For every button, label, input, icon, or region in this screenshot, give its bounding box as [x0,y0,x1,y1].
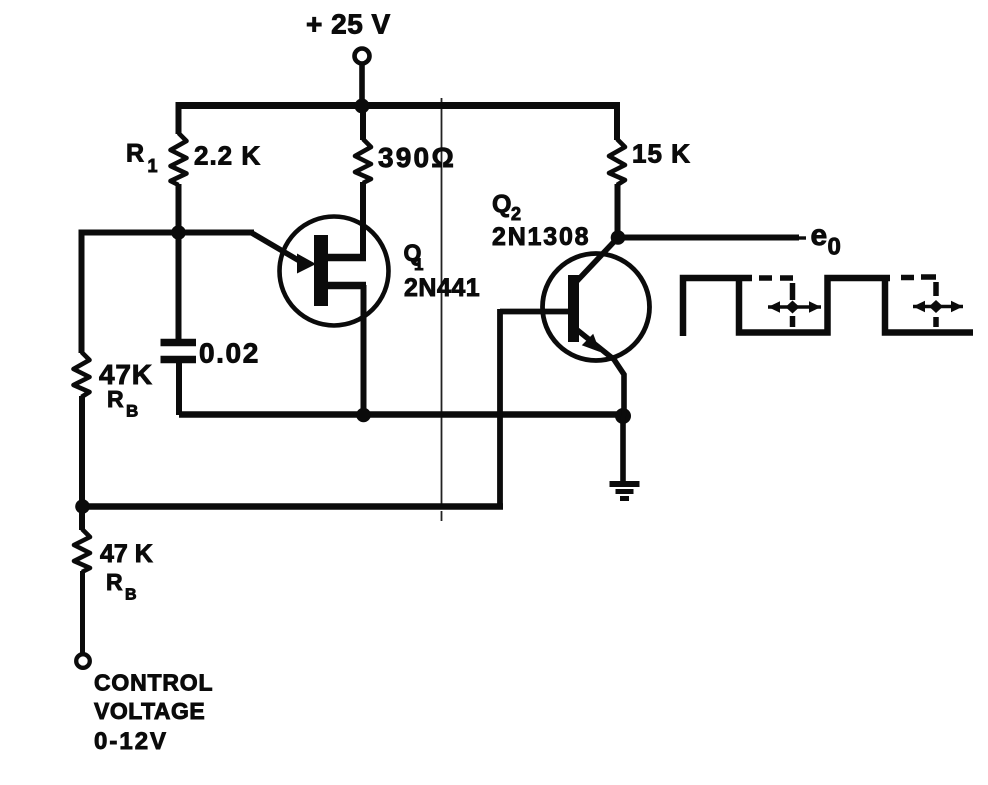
node collector junction [611,230,626,245]
wire supply stem [359,63,365,106]
svg-text:R: R [106,569,123,595]
svg-text:e: e [811,219,828,252]
fold line (thin scan crease) [441,98,443,521]
wire RB lower top [79,505,85,530]
terminal +25V [355,49,370,64]
wire Q1 emitter down [361,285,367,415]
wire 15K top [614,102,620,140]
ground [610,484,640,499]
transistor Q1 emitter lead [326,282,366,290]
transistor Q1 circle [280,217,389,326]
wire 390 top [360,102,366,140]
svg-text:47 K: 47 K [100,540,153,568]
wire ground stem [620,416,626,485]
wire 15K bottom [615,184,621,238]
svg-text:0: 0 [828,234,841,261]
transistor Q2 base bar [568,275,579,342]
transistor Q2 circle [543,254,650,361]
capacitor 0.02 bottom plate [161,356,197,364]
wire left branch vertical [79,230,85,354]
arrow Q1 base [297,254,316,274]
svg-text:Q: Q [492,191,511,219]
waveform dashed top 2 [901,274,936,280]
resistor RB lower 47K [74,529,90,572]
wire 390 bottom / Q1 collector lead [360,182,366,256]
svg-text:R: R [126,140,144,168]
resistor 15K [609,139,625,185]
svg-text:R: R [107,386,124,412]
transistor Q1 base bar [314,235,328,306]
node ground junction [615,408,631,424]
waveform arrow 1 [768,301,821,314]
svg-text:CONTROL: CONTROL [94,670,213,696]
wire control rail y506 [82,503,503,510]
waveform dashed vertical 1 [790,283,796,327]
transistor Q2 collector lead [577,238,618,282]
svg-text:2N1308: 2N1308 [492,223,590,251]
resistor RB upper 47K [74,352,90,397]
node Q1 emitter junction [356,408,371,423]
resistor R1 2.2K [171,133,187,185]
svg-text:1: 1 [148,156,158,176]
svg-text:VOLTAGE: VOLTAGE [94,698,205,724]
capacitor 0.02 top plate [161,339,197,347]
svg-text:15 K: 15 K [632,139,691,169]
waveform dashed top 1 [759,275,793,281]
arrow Q2 emitter [582,334,600,352]
waveform dashed vertical 2 [933,282,939,327]
wire top rail [176,102,617,109]
svg-text:B: B [126,402,138,421]
capacitor 0.02 stem bottom [176,362,182,415]
wire R1 top [176,102,182,134]
wire output e0 [618,235,799,241]
wire Q1 input diagonal [251,233,303,264]
waveform arrow 2 [913,300,963,313]
node R1 bottom junction [171,225,186,240]
svg-text:0.02: 0.02 [199,338,260,369]
wire RB lower bottom [80,571,85,655]
svg-text:+ 25 V: + 25 V [306,9,391,40]
node control junction [75,499,90,514]
waveform square wave [683,278,973,336]
resistor 390 ohm [355,139,371,183]
wire RB upper bottom [79,396,85,507]
node supply junction [355,99,370,114]
wire base rail y232 [79,230,254,236]
wire Q2 base vertical [497,309,503,509]
svg-text:390Ω: 390Ω [378,142,456,173]
svg-text:1: 1 [414,255,423,274]
svg-text:2N441: 2N441 [404,274,480,302]
wire R1 bottom [176,184,182,233]
svg-text:2: 2 [511,204,521,224]
svg-text:0-12V: 0-12V [94,728,168,755]
transistor Q2 emitter lead [576,329,624,416]
transistor Q1 collector lead [326,254,366,262]
wire mid rail y414 [179,411,623,418]
terminal control voltage [76,654,90,668]
svg-text:B: B [125,587,137,604]
capacitor 0.02 stem top [176,232,182,339]
wire Q2 base lead [500,309,570,315]
svg-text:2.2 K: 2.2 K [194,141,261,171]
